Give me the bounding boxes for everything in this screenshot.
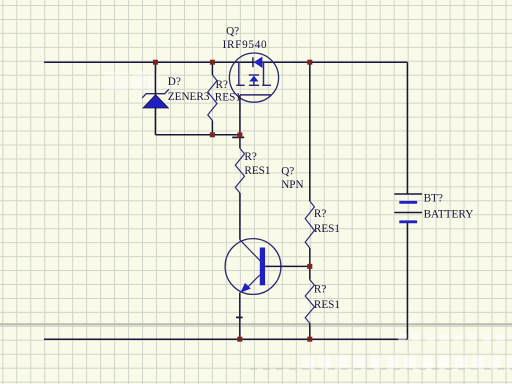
battery BT1 plate long bottom — [394, 212, 422, 214]
Q1 second diode stem — [253, 82, 255, 86]
wire: right chain top — [309, 62, 311, 201]
battery BT1 plate long top — [394, 193, 422, 195]
junction J2 — [210, 60, 215, 65]
junction J3 — [307, 60, 312, 65]
svg-text:NPN: NPN — [281, 179, 303, 191]
transistor Q2 circle — [225, 239, 281, 295]
wire: R3 to base node — [309, 248, 311, 280]
Q1 drain stub (left vertical) — [238, 62, 240, 85]
svg-text:R?: R? — [314, 284, 326, 296]
wire: top rail — [44, 61, 407, 63]
resistor R4 zigzag — [305, 280, 314, 324]
wire: right branch down to battery — [406, 62, 408, 193]
wire: R4 to bottom rail — [309, 323, 311, 339]
Q1 source stub (right vertical) — [263, 62, 265, 85]
Q1 body diode triangle (points left) — [254, 57, 263, 69]
resistor R1 zigzag — [208, 75, 217, 121]
svg-text:R?: R? — [216, 79, 228, 91]
watermark row 1 (bottom right) — [398, 334, 505, 342]
Q1 channel stroke mid — [249, 84, 259, 86]
gate pin end tick — [232, 136, 244, 138]
horizontal gray band — [0, 323, 512, 325]
svg-text:Q?: Q? — [226, 26, 239, 38]
zener diode D1 cathode bar with bent ends — [142, 89, 169, 98]
resistor R2 zigzag — [235, 148, 244, 193]
resistor R2 wire bottom to NPN collector — [239, 193, 241, 240]
emitter pin end tick — [236, 316, 243, 318]
svg-text:RES1: RES1 — [314, 223, 340, 235]
svg-text:D?: D? — [168, 76, 181, 88]
svg-text:BT?: BT? — [424, 192, 443, 204]
junction J1 — [153, 60, 158, 65]
Q1 channel stroke right — [262, 84, 271, 86]
svg-text:ZENER3: ZENER3 — [168, 91, 210, 103]
Q2 emitter arrow — [240, 283, 251, 293]
battery BT1 plate thick top — [399, 201, 417, 204]
svg-text:RES1: RES1 — [215, 92, 241, 104]
Q2 emitter pin — [239, 293, 241, 318]
transistor Q1 MOSFET circle — [229, 53, 278, 102]
Q1 gate pin — [239, 95, 241, 135]
Q2 collector diagonal — [240, 240, 263, 263]
svg-text:RES1: RES1 — [314, 299, 340, 311]
Q1 body diode cathode bar — [252, 57, 254, 67]
junction J4 — [210, 132, 215, 137]
Q2 emitter diagonal — [245, 275, 260, 291]
junction J6 — [307, 264, 312, 269]
svg-text:R?: R? — [244, 151, 256, 163]
junction J7 — [307, 337, 312, 342]
resistor R1 wire bottom — [211, 121, 213, 135]
svg-text:R?: R? — [314, 208, 326, 220]
Q1 second diode triangle (points up) — [249, 76, 258, 82]
junction J8 — [237, 337, 242, 342]
watermark row 2 (bottom) — [302, 356, 512, 369]
Q2 base bar — [260, 248, 265, 286]
junction J5 — [237, 133, 242, 138]
watermark patch near zener (underlay) — [104, 71, 160, 90]
Q2 base wire to R3/R4 node — [265, 265, 310, 267]
wire: emitter to bottom rail — [239, 317, 241, 339]
watermark dashed underline — [250, 368, 512, 370]
wire: zener branch vertical — [154, 62, 156, 135]
svg-text:BATTERY: BATTERY — [424, 208, 474, 220]
wire: gate node horizontal — [155, 134, 240, 136]
svg-text:IRF9540: IRF9540 — [223, 39, 268, 51]
resistor R2 wire top — [239, 135, 241, 149]
battery BT1 plate thick bottom — [399, 220, 417, 223]
zener diode D1 triangle — [143, 95, 168, 108]
svg-text:RES1: RES1 — [244, 165, 270, 177]
resistor R3 zigzag — [305, 201, 314, 248]
svg-text:Q?: Q? — [281, 165, 294, 177]
Q1 gate bar — [240, 94, 271, 96]
Q1 second diode bar — [249, 74, 259, 76]
wire: bottom rail — [44, 338, 407, 340]
Q1 channel stroke left — [236, 84, 244, 86]
wire: battery bottom to bottom rail — [406, 223, 408, 340]
resistor R1 wire top — [211, 62, 213, 75]
